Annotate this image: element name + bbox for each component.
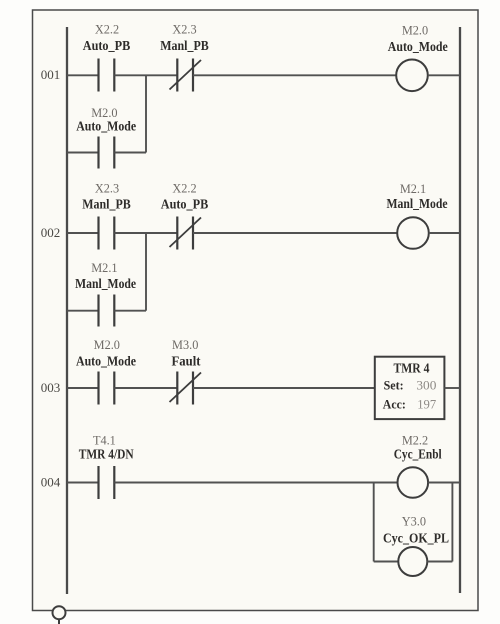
svg-text:Auto_Mode: Auto_Mode [388, 39, 448, 54]
svg-text:001: 001 [41, 67, 61, 82]
svg-text:T4.1: T4.1 [93, 434, 116, 448]
coil M2.1 Manl_Mode [387, 182, 448, 249]
svg-text:M2.2: M2.2 [402, 433, 428, 447]
svg-text:Auto_PB: Auto_PB [83, 38, 131, 53]
wire rung 003 segment C [193, 387, 375, 389]
contact M2.0 Auto_Mode (NO) [76, 338, 136, 405]
svg-text:Fault: Fault [172, 354, 201, 369]
coil M2.0 Auto_Mode [388, 24, 448, 92]
svg-text:Acc:: Acc: [383, 397, 406, 412]
svg-text:Y3.0: Y3.0 [402, 515, 426, 529]
svg-text:002: 002 [41, 225, 61, 240]
svg-text:X2.3: X2.3 [172, 23, 196, 37]
svg-text:X2.3: X2.3 [95, 182, 119, 196]
wire rung 002 segment C [193, 232, 397, 234]
svg-text:Manl_Mode: Manl_Mode [387, 196, 448, 211]
svg-text:M2.0: M2.0 [402, 24, 428, 38]
contact T4.1 TMR 4/DN (NO) [79, 434, 134, 500]
wire rung 002 segment A [67, 232, 99, 234]
wire branch 004 segment A [374, 561, 399, 563]
svg-text:Auto_PB: Auto_PB [161, 197, 209, 212]
wire rung 003 segment A [67, 387, 99, 389]
wire branch 001 vertical [145, 75, 147, 152]
wire rung 004 segment A [67, 482, 99, 484]
svg-text:197: 197 [417, 397, 436, 412]
wire stub below connector [58, 619, 60, 624]
svg-text:Manl_PB: Manl_PB [160, 38, 209, 53]
left power rail [66, 27, 68, 594]
timer TMR 4 [375, 357, 445, 419]
contact X2.2 Auto_PB (NO) [83, 23, 131, 92]
svg-text:M2.0: M2.0 [94, 338, 120, 352]
wire branch 004 segment B [427, 561, 452, 563]
contact X2.3 Manl_PB (NO) [82, 182, 131, 250]
coil Y3.0 Cyc_OK_PL [383, 515, 449, 577]
right power rail [459, 27, 461, 593]
wire branch 002 segment B [114, 310, 146, 312]
svg-text:TMR 4/DN: TMR 4/DN [79, 447, 134, 462]
svg-text:Set:: Set: [384, 378, 404, 393]
svg-text:Manl_PB: Manl_PB [82, 197, 131, 212]
coil M2.2 Cyc_Enbl [394, 433, 442, 497]
wire rung 004 segment C [428, 482, 460, 484]
svg-text:M2.1: M2.1 [400, 182, 426, 196]
wire rung 004 segment B [114, 482, 397, 484]
contact X2.2 Auto_PB (NC) [161, 182, 209, 250]
svg-text:X2.2: X2.2 [95, 23, 119, 37]
wire rung 002 segment D [429, 232, 460, 234]
wire rung 001 segment A [67, 74, 99, 76]
svg-text:M2.1: M2.1 [91, 261, 117, 275]
svg-text:004: 004 [41, 475, 61, 490]
wire rung 001 segment D [428, 74, 460, 76]
wire rung 001 segment B [114, 74, 177, 76]
wire rung 002 segment B [114, 232, 177, 234]
wire branch 002 segment A [67, 310, 99, 312]
svg-text:Cyc_Enbl: Cyc_Enbl [394, 447, 442, 462]
svg-text:Auto_Mode: Auto_Mode [76, 119, 136, 134]
wire branch 004 right vertical [451, 483, 453, 562]
wire branch 001 segment B [114, 152, 146, 154]
wire branch 002 vertical [145, 233, 147, 311]
contact M3.0 Fault (NC) [170, 338, 202, 405]
svg-text:Cyc_OK_PL: Cyc_OK_PL [383, 531, 449, 546]
svg-text:M3.0: M3.0 [172, 338, 198, 352]
wire rung 001 segment C [193, 74, 396, 76]
svg-text:300: 300 [416, 378, 436, 393]
svg-text:Manl_Mode: Manl_Mode [75, 276, 136, 291]
svg-text:003: 003 [41, 380, 61, 395]
wire rung 003 segment B [114, 387, 177, 389]
wire branch 001 segment A [67, 152, 99, 154]
contact M2.1 Manl_Mode (NO) [75, 261, 136, 327]
wire branch 004 left vertical [373, 483, 375, 562]
contact X2.3 Manl_PB (NC) [160, 23, 209, 92]
svg-text:TMR 4: TMR 4 [394, 361, 430, 376]
svg-text:Auto_Mode: Auto_Mode [76, 354, 136, 369]
svg-text:X2.2: X2.2 [172, 182, 196, 196]
bottom connector node [53, 606, 66, 619]
wire rung 003 segment D [444, 387, 460, 389]
contact M2.0 Auto_Mode (NO) [76, 106, 136, 169]
